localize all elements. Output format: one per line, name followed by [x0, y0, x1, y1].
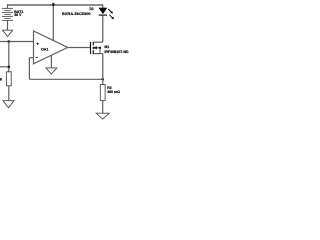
ground (battery)	[3, 30, 13, 36]
ground (R1)	[3, 101, 14, 108]
wire noninverting input from left edge	[0, 41, 33, 43]
label BAT1 36 V	[14, 10, 23, 17]
svg-text:380 mΩ: 380 mΩ	[107, 90, 120, 94]
wire op-amp output to gate	[68, 47, 90, 49]
svg-text:BXRA-56C5300: BXRA-56C5300	[62, 12, 91, 16]
node junction at left wire and R1	[8, 66, 11, 69]
svg-text:M1: M1	[104, 45, 109, 49]
label R2 380 mOhm	[107, 86, 120, 94]
resistor R1	[6, 72, 11, 86]
resistor R2	[100, 85, 105, 101]
wire top rail	[8, 4, 104, 6]
wire R2 to ground	[102, 101, 104, 114]
node junction on top rail	[52, 3, 54, 7]
wire source down to node	[102, 54, 104, 85]
node junction at R1 branch	[8, 40, 11, 43]
svg-text:D1: D1	[89, 7, 94, 11]
wire op-amp V+ supply	[52, 5, 54, 41]
wire R1 branch vertical	[8, 42, 10, 72]
wire R1 to ground	[8, 86, 10, 101]
svg-text:36 V: 36 V	[14, 13, 22, 17]
wire inverting input stub	[29, 57, 33, 59]
wire battery top lead	[7, 4, 9, 8]
svg-text:OA1: OA1	[41, 48, 48, 52]
wire battery to ground	[7, 20, 9, 30]
LED emission arrows	[108, 9, 113, 18]
label D1 BXRA-56C5300	[62, 7, 94, 16]
LED D1	[99, 8, 107, 15]
wire feedback horizontal	[29, 78, 103, 80]
wire op-amp V- to ground	[50, 55, 52, 68]
minus input mark	[35, 57, 38, 59]
label fragment (cut off at edge)	[0, 78, 2, 81]
node junction feedback / source / R2	[102, 78, 105, 81]
label M1 IRF40B207-ND	[104, 45, 129, 54]
wire from left edge to R1 node	[0, 66, 9, 68]
plus input mark	[36, 42, 39, 45]
op-amp OA1	[34, 31, 68, 64]
wire inverting feedback vertical	[28, 58, 30, 80]
node junction MOSFET body-source	[99, 47, 101, 49]
svg-text:IRF40B207-ND: IRF40B207-ND	[104, 50, 129, 54]
ground (R2)	[96, 113, 109, 119]
battery BAT1	[2, 8, 13, 20]
ground (op-amp)	[46, 68, 57, 74]
wire LED anode from rail	[102, 5, 104, 8]
wire drain to LED	[102, 16, 104, 42]
transistor M1	[91, 42, 103, 54]
